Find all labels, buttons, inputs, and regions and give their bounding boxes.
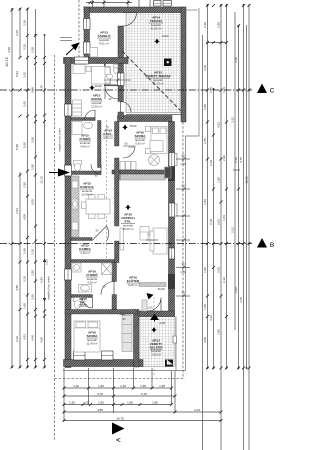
svg-text:4,63: 4,63 bbox=[217, 122, 221, 128]
svg-text:4,40 m²: 4,40 m² bbox=[80, 145, 90, 149]
svg-text:4,80: 4,80 bbox=[15, 285, 19, 291]
svg-text:12,10: 12,10 bbox=[40, 176, 44, 184]
porch tiled floor (fedett belepo) bbox=[139, 317, 176, 371]
svg-text:14,40 m²: 14,40 m² bbox=[81, 193, 92, 197]
dimension line L1 bbox=[11, 9, 13, 367]
bottom chain 5 bbox=[63, 420, 221, 422]
svg-text:meglévő ép. jelen: meglévő ép. jelen bbox=[58, 128, 62, 152]
dimension line R10 bbox=[248, 4, 250, 450]
side entry arrow (nappali terrace) bbox=[147, 293, 154, 300]
wall: szoba/furdo divider bbox=[71, 118, 95, 121]
svg-text:1,83: 1,83 bbox=[203, 199, 207, 205]
svg-text:2,86: 2,86 bbox=[217, 329, 221, 335]
svg-text:90: 90 bbox=[181, 291, 185, 295]
wall: furdo16/wc divider bbox=[71, 295, 93, 298]
section marker C triangle bbox=[257, 84, 267, 94]
window sill right wall mid bbox=[175, 204, 178, 216]
svg-text:41,09 m²: 41,09 m² bbox=[150, 27, 161, 31]
window: right wall mid bbox=[169, 203, 175, 217]
entry step band at nappali terrace door bbox=[139, 283, 166, 287]
svg-text:3,32: 3,32 bbox=[231, 117, 235, 123]
svg-text:±0,00: ±0,00 bbox=[130, 124, 137, 128]
entry arrow shaft bbox=[154, 314, 156, 322]
right chain tick marks bbox=[206, 4, 251, 369]
elevation diamond: nappali bbox=[125, 205, 131, 211]
svg-text:3,30: 3,30 bbox=[203, 65, 207, 71]
furniture: konyha counter bbox=[72, 176, 80, 237]
svg-text:2,65: 2,65 bbox=[31, 294, 35, 300]
dimension line R8 bbox=[243, 4, 245, 450]
furniture: szoba16top bed bbox=[151, 127, 167, 154]
svg-text:1,05: 1,05 bbox=[83, 400, 89, 404]
wall: party wall seg4 bbox=[115, 158, 120, 226]
terrace column bbox=[164, 59, 172, 67]
window sill right wall upper bbox=[175, 154, 178, 166]
svg-text:5,98: 5,98 bbox=[15, 144, 19, 150]
svg-text:1,40: 1,40 bbox=[73, 384, 79, 388]
window: left wall lower bbox=[65, 269, 72, 280]
window: bottom wall west bbox=[74, 351, 86, 360]
svg-text:3,16: 3,16 bbox=[209, 315, 213, 321]
wall: furdo bottom bbox=[71, 171, 101, 175]
wall: ap16 szoba bottom bbox=[112, 170, 169, 174]
svg-text:2,30: 2,30 bbox=[203, 22, 207, 28]
left chain tick marks bbox=[11, 8, 47, 369]
wall: tarolo left outer bbox=[84, 7, 90, 62]
furniture: ensuite sink bbox=[107, 74, 113, 79]
dimension line R6 bbox=[234, 12, 236, 330]
svg-text:4,75: 4,75 bbox=[239, 297, 243, 303]
svg-text:5,00 m²: 5,00 m² bbox=[128, 283, 138, 287]
terrace bottom edge line bbox=[126, 114, 181, 116]
right chain rotated dimension numbers bbox=[203, 22, 249, 343]
svg-text:9,35 m²: 9,35 m² bbox=[135, 142, 145, 146]
svg-text:2,60: 2,60 bbox=[23, 101, 27, 107]
door: furdo16 bbox=[101, 282, 114, 295]
wall: tarolo bottom / unit top bbox=[64, 58, 129, 64]
wall: konyha/kamra divider bbox=[71, 238, 92, 241]
svg-text:2,45: 2,45 bbox=[23, 248, 27, 254]
dimension line R5 bbox=[226, 4, 228, 368]
window: bottom wall east bbox=[102, 351, 114, 360]
svg-text:2,05: 2,05 bbox=[217, 267, 221, 273]
furniture: tarolo shelf bbox=[90, 48, 98, 58]
furniture: szoba16 shelf row bbox=[120, 162, 125, 170]
small dim lines near tarolo arrow bbox=[60, 37, 72, 39]
svg-text:1,90: 1,90 bbox=[23, 303, 27, 309]
svg-text:4,53: 4,53 bbox=[23, 334, 27, 340]
dimension line L5 bbox=[44, 35, 46, 367]
bottom chain ticks bbox=[63, 387, 223, 423]
door: wc16 bbox=[83, 298, 93, 309]
window: tarolo left wall lower bbox=[84, 42, 91, 54]
svg-text:±0,00: ±0,00 bbox=[95, 84, 102, 88]
door: furdo15 lower bbox=[91, 165, 101, 175]
svg-text:1,50: 1,50 bbox=[69, 400, 75, 404]
svg-text:2,75: 2,75 bbox=[203, 138, 207, 144]
ap15 entry arrow (left wall) bbox=[58, 169, 70, 177]
terrace tiled floor bbox=[126, 13, 181, 115]
elevation diamond: porch bbox=[151, 327, 157, 333]
roof dashed right vertical bbox=[182, 122, 184, 379]
section line B (dash-dot) bbox=[0, 243, 252, 245]
svg-text:1,40: 1,40 bbox=[98, 384, 104, 388]
wall: main bottom outer bbox=[64, 360, 144, 367]
small dim ticks attached to right wall bbox=[104, 79, 190, 298]
furniture: nappali16 fridge bbox=[165, 167, 172, 178]
section A dashed trace verticals bbox=[107, 120, 155, 377]
svg-text:2,50: 2,50 bbox=[23, 182, 27, 188]
svg-text:1,90: 1,90 bbox=[31, 270, 35, 276]
svg-text:1,48: 1,48 bbox=[140, 384, 146, 388]
top window symbols above wall bbox=[154, 1, 172, 7]
elevation diamond: szoba15 bbox=[89, 39, 160, 333]
door opening: ap15 entry in left wall bbox=[65, 165, 72, 176]
wall: party wall seg3 bbox=[115, 122, 120, 147]
dimension line R4 bbox=[220, 4, 222, 450]
furniture: szoba16 wardrobe bbox=[122, 316, 132, 352]
door: szoba16 bbox=[119, 314, 131, 326]
svg-text:2,02: 2,02 bbox=[217, 219, 221, 225]
svg-text:3,30: 3,30 bbox=[23, 72, 27, 78]
svg-text:8,01 m²: 8,01 m² bbox=[99, 42, 109, 46]
svg-text:11,95: 11,95 bbox=[245, 176, 249, 184]
svg-text:2,20: 2,20 bbox=[23, 44, 27, 50]
left dimension chain block bbox=[12, 9, 45, 367]
dimension line R9 bbox=[246, 25, 248, 368]
svg-text:2,10: 2,10 bbox=[31, 249, 35, 255]
furniture: szoba16 stove bbox=[149, 155, 160, 166]
dashed site boundary line left bbox=[54, 55, 56, 440]
svg-text:1,86: 1,86 bbox=[203, 267, 207, 273]
svg-text:5,16: 5,16 bbox=[234, 157, 238, 163]
svg-text:2,92: 2,92 bbox=[222, 155, 226, 161]
wall: right outer below terrace bbox=[169, 122, 175, 317]
svg-text:2,19: 2,19 bbox=[209, 219, 213, 225]
window: left wall upper bbox=[65, 104, 72, 116]
svg-text:1,85: 1,85 bbox=[152, 400, 158, 404]
window: szoba15 right wall bbox=[118, 73, 125, 86]
dimension line R1 bbox=[202, 35, 204, 450]
top dimension chain bbox=[86, 0, 150, 12]
dimension line L2 bbox=[19, 9, 21, 57]
furniture: furdo16 washer bbox=[72, 263, 81, 272]
furniture: nappali16 armchair bbox=[140, 227, 149, 236]
svg-text:11,35 m²: 11,35 m² bbox=[91, 105, 102, 109]
wall: szoba15 right outer seg2 bbox=[118, 112, 124, 118]
window: tarolo left wall upper bbox=[84, 19, 91, 30]
svg-text:90: 90 bbox=[181, 154, 185, 158]
svg-text:1,85: 1,85 bbox=[127, 400, 133, 404]
arrow to tarolo bbox=[71, 43, 80, 51]
svg-text:3,85: 3,85 bbox=[203, 337, 207, 343]
svg-text:90: 90 bbox=[181, 262, 185, 266]
furniture: szoba15 bed bbox=[92, 67, 111, 85]
door: furdo15 bbox=[85, 110, 96, 121]
furniture: furdo16 shower bbox=[102, 263, 113, 275]
wall: tarolo right (door gap above) bbox=[118, 26, 124, 62]
left chain rotated dimension numbers bbox=[5, 20, 49, 343]
svg-text:3,05 m²: 3,05 m² bbox=[103, 136, 113, 140]
roof dashed top-left vertical bbox=[78, 0, 80, 58]
svg-text:C: C bbox=[270, 88, 275, 95]
svg-text:90: 90 bbox=[181, 184, 185, 188]
dimension line L3 bbox=[27, 9, 29, 367]
svg-text:4,30 m²: 4,30 m² bbox=[87, 281, 97, 285]
door: szoba15 to terrace bbox=[121, 102, 132, 113]
furniture: szoba15 dresser bbox=[73, 100, 82, 116]
door: tarolo to terrace bbox=[123, 13, 137, 27]
svg-text:5,93: 5,93 bbox=[15, 71, 19, 77]
roof overhang dashed outline bbox=[55, 0, 186, 379]
svg-text:2,22: 2,22 bbox=[231, 227, 235, 233]
svg-text:2,92: 2,92 bbox=[234, 287, 238, 293]
svg-text:1,65: 1,65 bbox=[203, 304, 207, 310]
svg-text:1,50: 1,50 bbox=[180, 270, 186, 274]
door: ap16 szoba bbox=[123, 146, 135, 158]
svg-text:25,50 m²: 25,50 m² bbox=[122, 227, 133, 231]
wall: furdo16 right bbox=[112, 263, 117, 282]
bottom chain numbers bbox=[69, 384, 200, 421]
section line C (dash-dot) bbox=[0, 89, 252, 91]
extension lines down from building bbox=[63, 368, 65, 421]
wall: wc/szoba16 divider bbox=[65, 310, 138, 315]
svg-text:4,95: 4,95 bbox=[40, 337, 44, 343]
svg-text:2,55: 2,55 bbox=[203, 104, 207, 110]
furniture: eloter cabinet bbox=[142, 300, 147, 311]
svg-text:1,48: 1,48 bbox=[159, 384, 165, 388]
svg-text:1,50: 1,50 bbox=[180, 162, 186, 166]
svg-text:1,90: 1,90 bbox=[98, 400, 104, 404]
porch right pillar bump bbox=[173, 336, 177, 343]
svg-text:2,16: 2,16 bbox=[209, 160, 213, 166]
svg-text:4,08: 4,08 bbox=[23, 214, 27, 220]
elevation diamond: szoba16 top bbox=[122, 125, 128, 131]
svg-text:2,28: 2,28 bbox=[31, 47, 35, 53]
svg-text:6,75: 6,75 bbox=[239, 157, 243, 163]
svg-text:3,75: 3,75 bbox=[97, 392, 103, 396]
svg-text:2,50: 2,50 bbox=[217, 22, 221, 28]
wall: szoba15 right outer seg bbox=[118, 64, 124, 102]
door dimension specks bbox=[95, 97, 154, 321]
small horizontal connector dim bbox=[206, 42, 227, 44]
section marker B triangle bbox=[257, 238, 267, 248]
furniture: wc16 toilet bbox=[74, 298, 82, 302]
window: right wall upper bbox=[169, 153, 175, 167]
svg-text:11,40 m²: 11,40 m² bbox=[87, 342, 98, 346]
dimension line R3 bbox=[213, 88, 215, 368]
svg-text:-0,02: -0,02 bbox=[159, 321, 166, 325]
wall: ap16 szoba top (below terrace) bbox=[118, 116, 173, 122]
svg-text:B: B bbox=[270, 242, 274, 249]
svg-text:6,83: 6,83 bbox=[40, 277, 44, 283]
door: kamra bbox=[92, 226, 109, 241]
svg-text:3,30: 3,30 bbox=[23, 276, 27, 282]
svg-text:40,15: 40,15 bbox=[5, 57, 9, 67]
svg-text:meglévő ép. jelen: meglévő ép. jelen bbox=[47, 276, 51, 300]
svg-text:4,40: 4,40 bbox=[31, 335, 35, 341]
svg-text:2,22: 2,22 bbox=[222, 277, 226, 283]
porch right edge thin line bbox=[175, 317, 177, 371]
svg-text:14,75: 14,75 bbox=[116, 416, 124, 420]
svg-text:5,15: 5,15 bbox=[141, 392, 147, 396]
svg-text:4,90: 4,90 bbox=[7, 47, 11, 53]
svg-text:2,22: 2,22 bbox=[15, 336, 19, 342]
svg-text:1,40: 1,40 bbox=[120, 384, 126, 388]
furniture: furdo15 cabinet bbox=[72, 122, 82, 135]
svg-text:3,06 m²: 3,06 m² bbox=[151, 353, 161, 357]
section marker A triangle (bottom) bbox=[112, 423, 125, 435]
furniture: dining table konyha bbox=[86, 199, 110, 214]
door: ensuite niche bbox=[105, 86, 118, 99]
furniture: furdo15 toilet bbox=[74, 161, 82, 165]
furniture: nappali16 tv board bbox=[120, 228, 124, 250]
svg-text:1,80: 1,80 bbox=[31, 164, 35, 170]
svg-text:1,20 m²: 1,20 m² bbox=[80, 251, 90, 255]
elevation diamond: terasz bbox=[154, 39, 160, 45]
wall: party wall seg5 bbox=[115, 241, 120, 263]
furniture: szoba15 wardrobe top bbox=[73, 65, 85, 74]
svg-text:2,10: 2,10 bbox=[128, 145, 134, 149]
eaves outline thin bbox=[63, 8, 199, 371]
wall: ensuite niche left bbox=[104, 64, 106, 87]
furniture: ensuite toilet bbox=[114, 65, 119, 68]
furniture: furdo15 sink bbox=[84, 122, 93, 128]
dimension line R7 bbox=[238, 25, 240, 368]
wall: main left outer bbox=[65, 58, 71, 368]
svg-text:2,30: 2,30 bbox=[234, 57, 238, 63]
porch corner post bbox=[165, 360, 173, 367]
roof dashed bottom horizontal bbox=[55, 378, 186, 380]
svg-text:1,38: 1,38 bbox=[23, 20, 27, 26]
dark glazed door: right wall nappali bbox=[168, 167, 175, 182]
svg-text:±0,00: ±0,00 bbox=[158, 287, 165, 291]
wall: terrace right outer bbox=[181, 7, 186, 122]
svg-text:3,58: 3,58 bbox=[31, 137, 35, 143]
svg-text:3,21: 3,21 bbox=[15, 208, 19, 214]
wall: furdo16 right seg2 bbox=[112, 295, 117, 310]
terrace diagonal dashed line bbox=[122, 51, 181, 111]
svg-text:A: A bbox=[116, 437, 123, 442]
furniture: furdo16 sink bbox=[79, 285, 92, 293]
bottom chain 2 bbox=[63, 395, 175, 397]
right dimension chain block bbox=[203, 4, 250, 450]
furniture: szoba16 bed bbox=[74, 321, 100, 352]
underlines for room names bbox=[79, 23, 170, 350]
wall: furdo right bbox=[98, 121, 102, 168]
left chain end dots bbox=[11, 8, 45, 368]
svg-text:1,50: 1,50 bbox=[217, 177, 221, 183]
furniture: nappali16 sofa bbox=[153, 228, 167, 254]
furniture: nappali16 kitchen counter bbox=[120, 175, 166, 181]
bottom chain 3 bbox=[63, 404, 172, 406]
bottom chain 4 bbox=[63, 411, 221, 413]
bottom dimension chains bbox=[63, 368, 221, 421]
right chain end dots bbox=[207, 4, 248, 369]
entry arrow at porch door bbox=[150, 314, 159, 321]
svg-text:+0,00: +0,00 bbox=[161, 34, 169, 38]
dimension line L4 bbox=[35, 9, 37, 367]
svg-text:2,30: 2,30 bbox=[15, 30, 19, 36]
svg-text:5,50: 5,50 bbox=[23, 142, 27, 148]
top chain ticks bbox=[89, 1, 130, 4]
dimension line R2 bbox=[207, 4, 209, 368]
svg-text:1,00: 1,00 bbox=[147, 306, 153, 310]
svg-text:1,63: 1,63 bbox=[222, 215, 226, 221]
bottom chain 1 bbox=[63, 387, 172, 389]
svg-text:4,85: 4,85 bbox=[97, 408, 103, 412]
dark glazed door: right wall eloter bbox=[168, 274, 175, 289]
wall: ensuite niche bottom bbox=[104, 85, 118, 87]
wall: porch top bbox=[138, 311, 175, 317]
door: front entry arc bbox=[148, 298, 162, 312]
svg-text:2,04: 2,04 bbox=[194, 408, 200, 412]
small arrows on line L5 bbox=[43, 259, 46, 302]
window: unit top wall bbox=[75, 57, 89, 64]
wall: kamra bottom bbox=[71, 260, 115, 263]
svg-text:1,03: 1,03 bbox=[45, 259, 49, 265]
svg-text:5,05: 5,05 bbox=[31, 199, 35, 205]
wall: porch/szoba right bbox=[134, 310, 140, 368]
wall: top outer bbox=[84, 7, 184, 13]
window: right wall lower bbox=[169, 248, 175, 259]
